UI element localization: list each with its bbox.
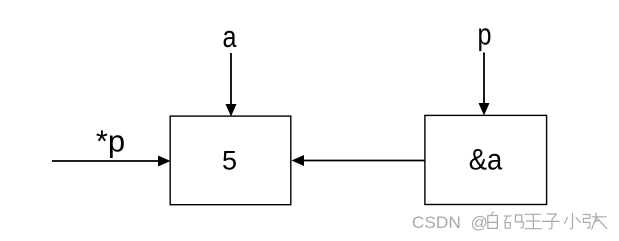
- svg-text:&a: &a: [469, 144, 503, 177]
- svg-text:p: p: [478, 17, 492, 52]
- arrow *p to box: [52, 156, 171, 167]
- arrow p to box: [479, 53, 490, 116]
- arrow from pointer box to value box: [292, 155, 426, 166]
- svg-text:a: a: [223, 19, 238, 54]
- svg-text:*p: *p: [96, 124, 125, 159]
- svg-text:5: 5: [222, 146, 237, 176]
- box: pointer p: [425, 115, 547, 204]
- arrow a to box: [226, 53, 237, 117]
- box: variable a: [170, 116, 291, 205]
